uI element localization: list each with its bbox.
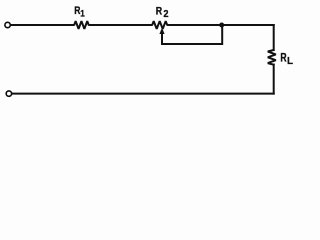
svg-text:1: 1 (80, 8, 85, 19)
svg-text:L: L (287, 56, 293, 67)
svg-text:R: R (156, 5, 163, 17)
svg-text:2: 2 (163, 9, 168, 20)
